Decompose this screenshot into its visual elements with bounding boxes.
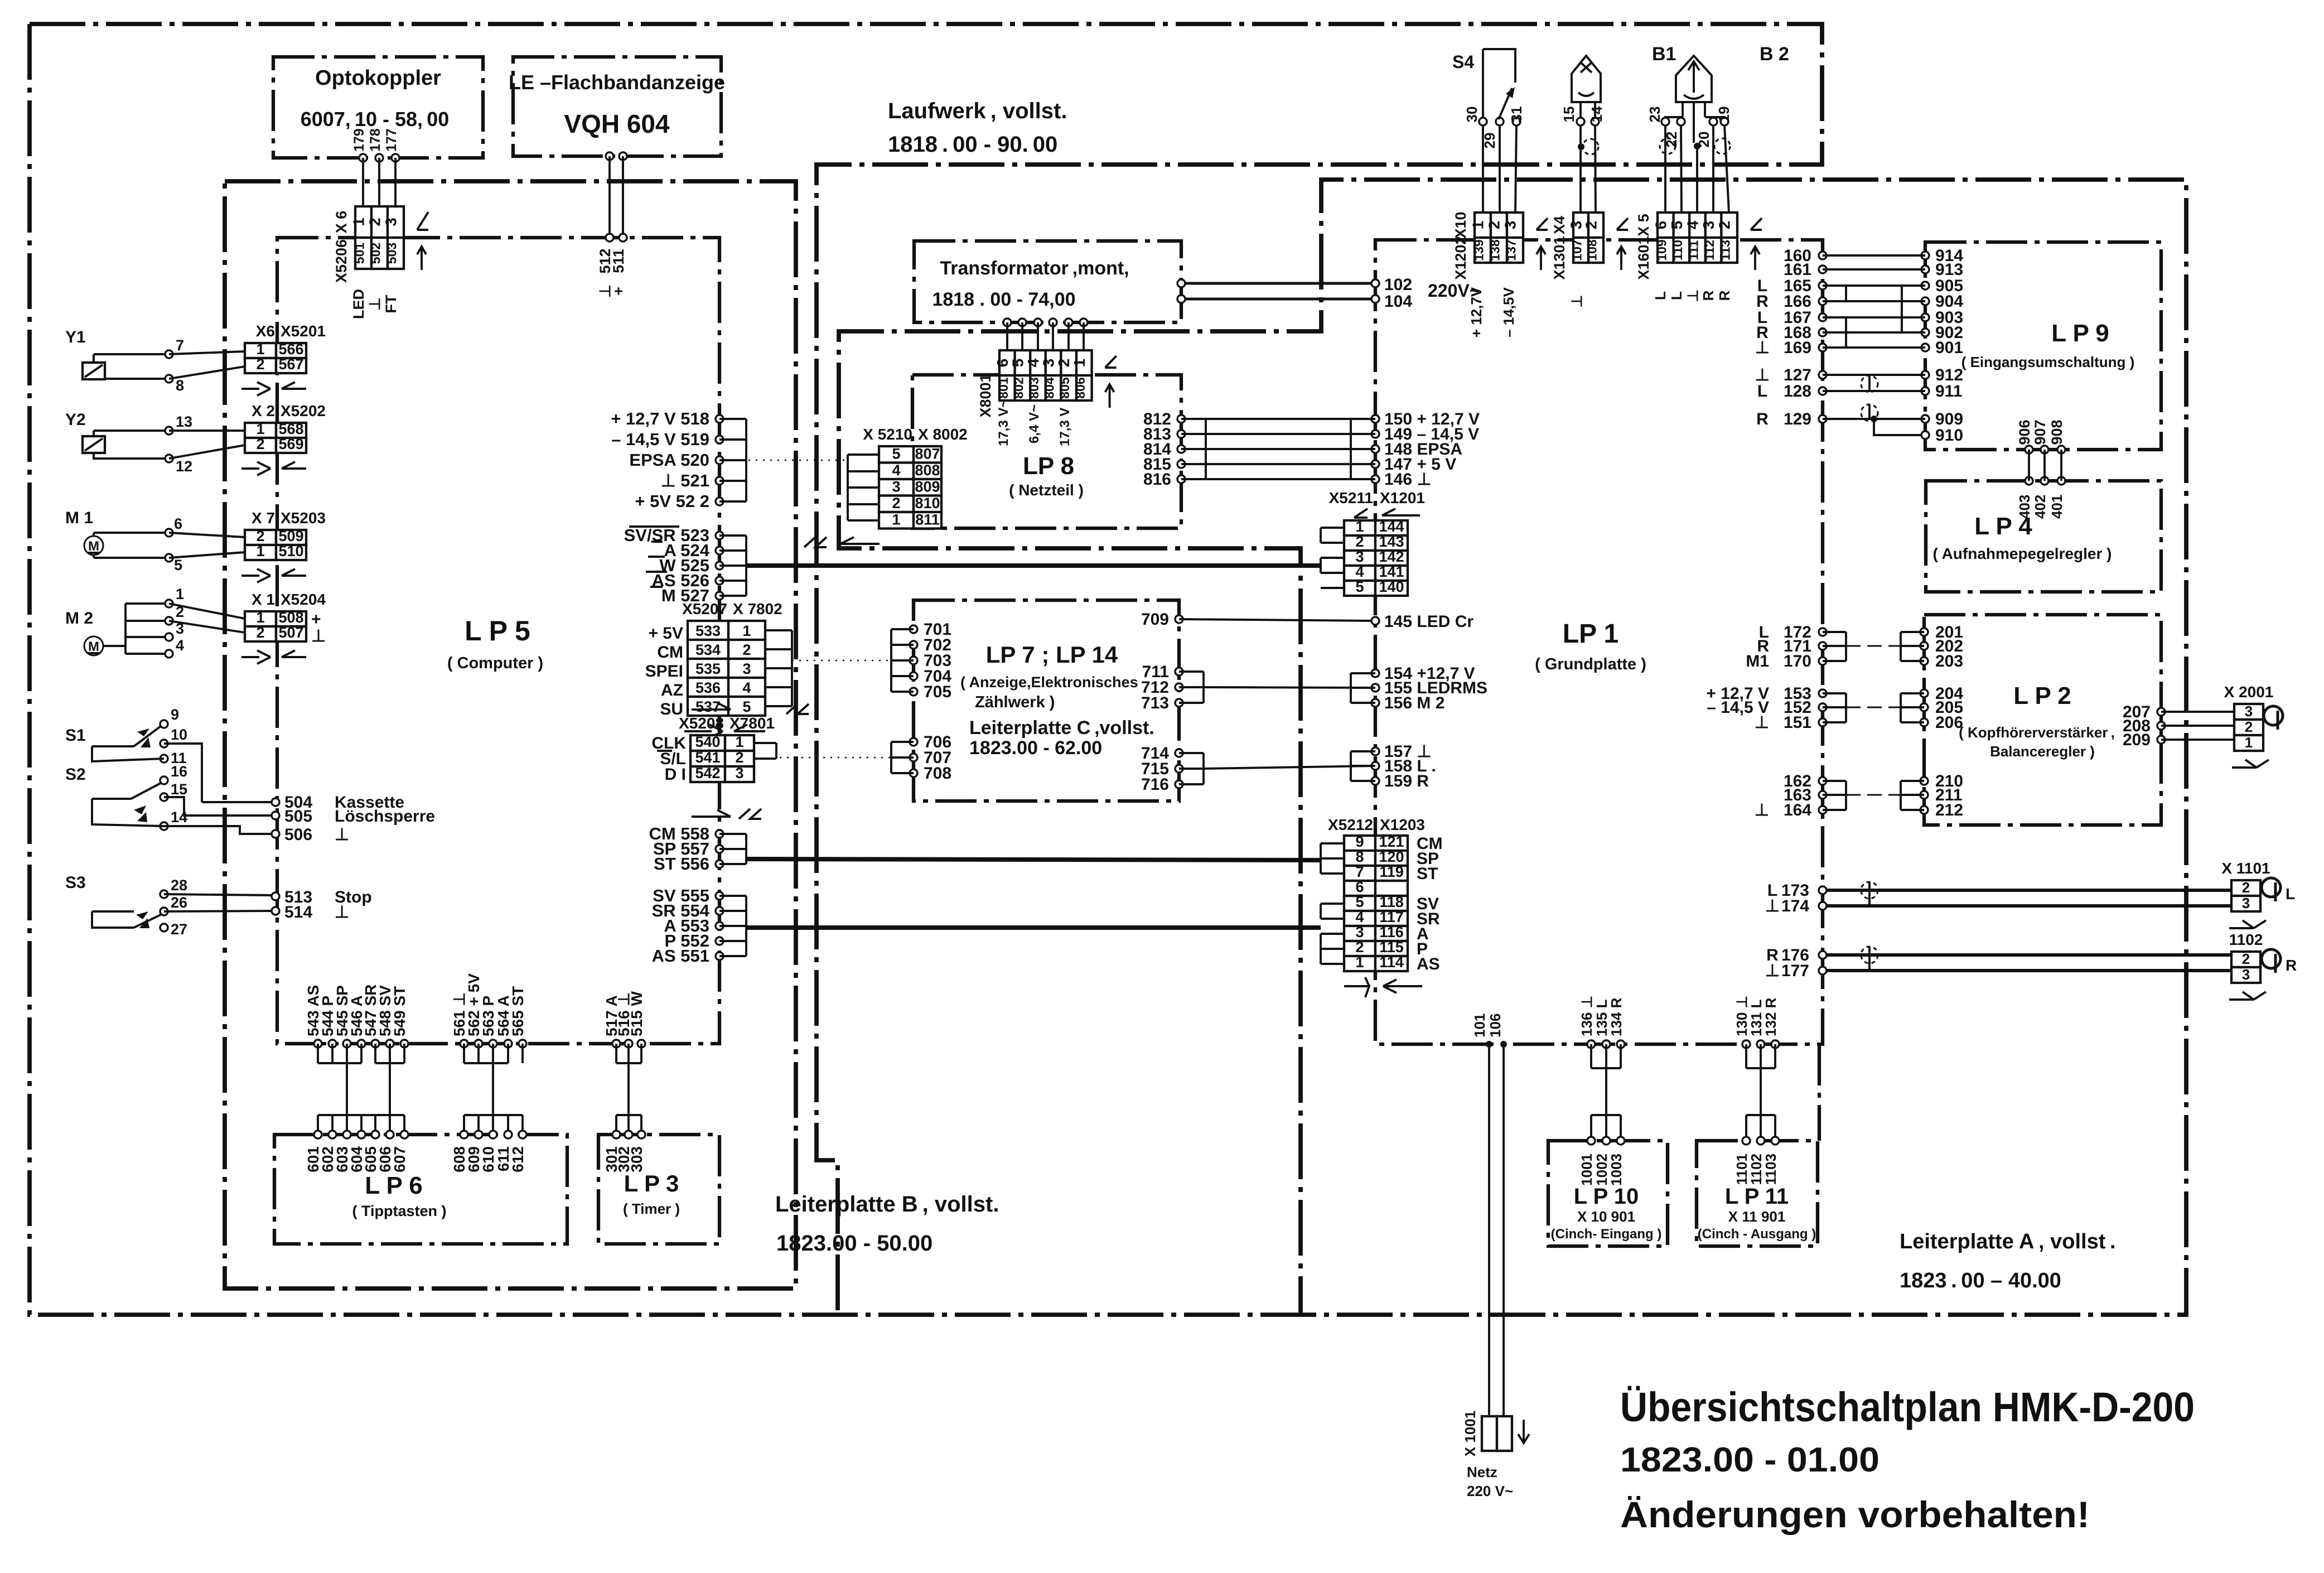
svg-text:1823.00 - 50.00: 1823.00 - 50.00: [776, 1231, 933, 1256]
svg-text:2: 2: [1355, 939, 1364, 956]
svg-text:567: 567: [278, 356, 303, 373]
svg-text:138: 138: [1488, 239, 1502, 261]
svg-text:X5204: X5204: [281, 591, 326, 608]
svg-text:134 R: 134 R: [1608, 997, 1625, 1036]
svg-text:177: 177: [1781, 962, 1809, 980]
svg-text:514: 514: [284, 903, 312, 921]
svg-text:L: L: [1757, 382, 1767, 401]
svg-text:2: 2: [256, 436, 264, 452]
svg-text:17,3 V: 17,3 V: [1057, 408, 1072, 446]
svg-text:M: M: [88, 539, 99, 554]
svg-text:5: 5: [892, 446, 900, 462]
svg-text:19: 19: [1716, 107, 1732, 123]
svg-text:906: 906: [2016, 419, 2033, 445]
svg-text:1: 1: [742, 623, 751, 639]
svg-text:16: 16: [171, 763, 187, 780]
svg-text:1: 1: [1071, 359, 1088, 368]
svg-text:705: 705: [924, 683, 951, 701]
svg-text:17,3 V~: 17,3 V~: [996, 400, 1011, 446]
svg-text:⊥: ⊥: [1568, 295, 1585, 308]
svg-text:111: 111: [1687, 240, 1701, 260]
svg-text:8: 8: [176, 377, 184, 394]
svg-text:( Netzteil ): ( Netzteil ): [1009, 481, 1084, 499]
svg-text:1003: 1003: [1608, 1154, 1625, 1186]
svg-text:203: 203: [1935, 652, 1963, 670]
svg-text:169: 169: [1784, 339, 1811, 357]
svg-text:Zählwerk ): Zählwerk ): [975, 693, 1055, 711]
svg-text:542: 542: [695, 765, 720, 781]
svg-text:10: 10: [171, 726, 187, 743]
svg-text:( Tipptasten ): ( Tipptasten ): [352, 1203, 446, 1219]
svg-text:811: 811: [915, 512, 940, 528]
svg-text:118: 118: [1379, 894, 1404, 910]
svg-text:L P 6: L P 6: [365, 1172, 423, 1199]
svg-text:31: 31: [1508, 107, 1525, 123]
svg-text:1: 1: [350, 218, 368, 226]
svg-text:4: 4: [1355, 909, 1364, 925]
svg-text:27: 27: [171, 921, 187, 938]
svg-text:6: 6: [1652, 221, 1669, 230]
svg-text:115: 115: [1379, 939, 1404, 956]
svg-text:⊥: ⊥: [1755, 801, 1769, 819]
svg-text:X 6: X 6: [333, 211, 350, 234]
svg-text:S2: S2: [65, 765, 86, 784]
svg-text:L: L: [2286, 885, 2295, 903]
svg-text:26: 26: [171, 894, 187, 911]
svg-text:L P 11: L P 11: [1725, 1184, 1789, 1209]
svg-text:3: 3: [2245, 703, 2253, 720]
svg-text:403: 403: [2016, 495, 2033, 519]
svg-text:807: 807: [915, 446, 940, 462]
svg-text:109: 109: [1654, 239, 1669, 260]
svg-text:143: 143: [1379, 533, 1404, 550]
svg-text:LP 8: LP 8: [1023, 452, 1074, 480]
svg-text:9: 9: [1355, 833, 1364, 850]
svg-text:5: 5: [742, 698, 751, 715]
svg-text:⊥: ⊥: [1765, 897, 1780, 915]
svg-text:+ 12,7V: + 12,7V: [1468, 287, 1485, 337]
svg-text:1: 1: [256, 543, 264, 559]
svg-text:5: 5: [174, 557, 182, 573]
svg-text:+ 5V: + 5V: [648, 624, 683, 643]
svg-text:535: 535: [695, 660, 721, 677]
svg-text:144: 144: [1379, 518, 1404, 535]
svg-text:129: 129: [1784, 410, 1811, 428]
svg-text:907: 907: [2032, 419, 2048, 445]
svg-text:1: 1: [892, 512, 900, 528]
svg-text:502: 502: [369, 243, 383, 264]
svg-text:515 W: 515 W: [628, 991, 645, 1036]
svg-text:⊥: ⊥: [366, 297, 383, 311]
svg-text:S1: S1: [65, 726, 86, 745]
svg-text:M: M: [88, 639, 99, 654]
svg-text:2: 2: [256, 624, 264, 641]
svg-text:2: 2: [2245, 718, 2253, 735]
svg-text:Netz: Netz: [1467, 1464, 1497, 1480]
svg-text:908: 908: [2048, 419, 2065, 445]
svg-text:1: 1: [2245, 734, 2253, 751]
svg-text:D I: D I: [665, 765, 686, 784]
svg-text:L: L: [1652, 291, 1669, 300]
svg-text:X6: X6: [256, 322, 275, 340]
svg-text:L P 9: L P 9: [2051, 320, 2109, 347]
svg-text:178: 178: [368, 128, 383, 152]
svg-text:⊥: ⊥: [1755, 339, 1770, 357]
svg-text:13: 13: [176, 413, 192, 430]
svg-text:L: L: [1668, 291, 1685, 300]
svg-text:137: 137: [1504, 239, 1519, 260]
svg-text:3: 3: [2242, 966, 2250, 983]
svg-text:136 ⊥: 136 ⊥: [1578, 996, 1595, 1036]
svg-text:2: 2: [1355, 533, 1364, 550]
svg-text:612: 612: [509, 1146, 526, 1172]
svg-text:X 8002: X 8002: [918, 426, 968, 443]
svg-text:X 11 901: X 11 901: [1728, 1208, 1786, 1225]
svg-text:508: 508: [278, 609, 303, 626]
svg-text:S4: S4: [1452, 52, 1474, 72]
svg-text:X7801: X7801: [729, 715, 775, 732]
svg-text:179: 179: [351, 128, 367, 152]
svg-text:116: 116: [1379, 924, 1404, 940]
svg-text:146 ⊥: 146 ⊥: [1384, 470, 1432, 489]
svg-text:X 7802: X 7802: [733, 600, 782, 617]
svg-text:541: 541: [695, 749, 720, 766]
svg-text:806: 806: [1073, 377, 1088, 398]
svg-text:X 2001: X 2001: [2224, 683, 2274, 701]
svg-text:5: 5: [1355, 578, 1364, 595]
svg-text:( Kopfhörerverstärker ,: ( Kopfhörerverstärker ,: [1959, 724, 2115, 741]
svg-text:1103: 1103: [1762, 1154, 1779, 1185]
svg-text:28: 28: [171, 877, 187, 894]
svg-text:B1: B1: [1652, 44, 1676, 65]
svg-text:8: 8: [1355, 848, 1364, 865]
svg-text:Leiterplatte A , vollst .: Leiterplatte A , vollst .: [1900, 1230, 2116, 1253]
svg-text:107: 107: [1570, 239, 1584, 260]
svg-text:X1301: X1301: [1551, 236, 1568, 279]
svg-text:15: 15: [171, 781, 187, 798]
svg-text:EPSA 520: EPSA 520: [629, 450, 709, 470]
svg-text:X5202: X5202: [281, 402, 326, 419]
svg-text:507: 507: [278, 624, 303, 641]
svg-text:2: 2: [742, 641, 751, 658]
svg-text:3: 3: [1700, 221, 1717, 230]
svg-text:⊥: ⊥: [1684, 289, 1701, 302]
svg-text:( Timer ): ( Timer ): [623, 1200, 680, 1217]
svg-text:M 1: M 1: [65, 509, 93, 527]
svg-text:1818 . 00 - 74,00: 1818 . 00 - 74,00: [932, 289, 1075, 310]
svg-text:1: 1: [176, 586, 184, 602]
svg-text:140: 140: [1379, 578, 1404, 595]
svg-text:⊥: ⊥: [1755, 713, 1769, 732]
svg-text:2: 2: [892, 495, 900, 512]
svg-text:503: 503: [385, 243, 399, 264]
svg-text:X1202: X1202: [1452, 236, 1469, 279]
svg-text:139: 139: [1472, 239, 1486, 260]
svg-text:( Eingangsumschaltung ): ( Eingangsumschaltung ): [1961, 354, 2135, 370]
svg-text:5: 5: [1355, 894, 1364, 910]
svg-text:801: 801: [996, 377, 1011, 399]
svg-text:3: 3: [892, 479, 900, 495]
svg-text:VQH 604: VQH 604: [564, 109, 670, 138]
svg-text:2: 2: [735, 749, 743, 766]
svg-text:X 1001: X 1001: [1462, 1411, 1479, 1456]
svg-text:X5203: X5203: [281, 509, 326, 527]
svg-text:1001: 1001: [1578, 1154, 1595, 1186]
svg-text:164: 164: [1784, 801, 1811, 819]
svg-text:506: 506: [284, 826, 312, 844]
svg-text:X1601: X1601: [1635, 236, 1652, 279]
svg-text:1818 . 00 - 90. 00: 1818 . 00 - 90. 00: [888, 132, 1057, 157]
svg-text:X5211: X5211: [1329, 489, 1373, 506]
svg-text:145 LED Cr: 145 LED Cr: [1384, 612, 1473, 631]
svg-text:4: 4: [742, 679, 751, 696]
svg-text:910: 910: [1935, 426, 1963, 445]
svg-text:Übersichtschaltplan HMK-D-200: Übersichtschaltplan HMK-D-200: [1620, 1384, 2195, 1430]
svg-text:128: 128: [1784, 382, 1811, 401]
svg-text:174: 174: [1781, 897, 1809, 915]
svg-text:1: 1: [735, 734, 743, 750]
svg-text:220 V~: 220 V~: [1467, 1483, 1513, 1499]
svg-text:5: 5: [1668, 221, 1685, 230]
svg-text:3: 3: [1502, 221, 1519, 230]
svg-text:30: 30: [1463, 107, 1480, 123]
svg-text:803: 803: [1027, 377, 1041, 398]
svg-text:M1: M1: [1746, 652, 1769, 670]
svg-text:⊥: ⊥: [335, 826, 349, 844]
svg-text:816: 816: [1143, 470, 1171, 489]
svg-text:510: 510: [278, 543, 303, 559]
svg-text:S3: S3: [65, 874, 86, 892]
svg-text:( Anzeige,Elektronisches: ( Anzeige,Elektronisches: [960, 674, 1138, 691]
svg-text:2: 2: [2242, 879, 2250, 896]
svg-text:AS 551: AS 551: [652, 946, 709, 966]
svg-text:3: 3: [383, 218, 400, 226]
svg-text:802: 802: [1011, 377, 1026, 398]
svg-text:114: 114: [1379, 954, 1404, 971]
svg-text:2: 2: [256, 528, 264, 544]
svg-text:Balanceregler ): Balanceregler ): [1990, 743, 2095, 760]
svg-text:120: 120: [1379, 848, 1404, 865]
svg-text:534: 534: [695, 641, 721, 658]
svg-text:1823.00 - 01.00: 1823.00 - 01.00: [1620, 1441, 1880, 1479]
svg-text:151: 151: [1784, 713, 1811, 732]
svg-text:ST 556: ST 556: [654, 854, 709, 874]
svg-text:809: 809: [915, 479, 940, 495]
svg-text:X 5210: X 5210: [863, 426, 912, 443]
svg-text:108: 108: [1585, 239, 1600, 261]
svg-text:15: 15: [1560, 107, 1577, 123]
svg-text:3: 3: [735, 765, 743, 781]
svg-text:6007, 10 - 58, 00: 6007, 10 - 58, 00: [301, 108, 450, 131]
svg-text:1: 1: [1355, 954, 1364, 971]
svg-text:Löschsperre: Löschsperre: [335, 807, 435, 826]
svg-text:LP 1: LP 1: [1563, 619, 1619, 649]
svg-text:121: 121: [1379, 833, 1404, 850]
svg-text:LP 7 ; LP 14: LP 7 ; LP 14: [986, 641, 1118, 668]
svg-text:R: R: [1716, 290, 1733, 301]
svg-text:Optokoppler: Optokoppler: [315, 66, 441, 90]
svg-text:– 14,5V: – 14,5V: [1500, 287, 1517, 337]
svg-text:+: +: [610, 287, 627, 296]
svg-text:⊥: ⊥: [335, 903, 349, 921]
svg-text:20: 20: [1695, 132, 1712, 148]
svg-text:505: 505: [284, 807, 312, 826]
svg-text:142: 142: [1379, 548, 1404, 565]
svg-text:X8001: X8001: [977, 374, 994, 417]
svg-text:Y1: Y1: [65, 328, 86, 346]
svg-text:6,4 V~: 6,4 V~: [1027, 404, 1042, 443]
svg-text:1: 1: [1470, 221, 1487, 230]
svg-text:2: 2: [2242, 950, 2250, 967]
svg-text:303: 303: [628, 1146, 645, 1172]
svg-text:549 ST: 549 ST: [391, 986, 408, 1036]
svg-text:+: +: [311, 610, 321, 629]
svg-text:2: 2: [1486, 221, 1503, 230]
svg-text:569: 569: [278, 436, 303, 452]
svg-text:511: 511: [610, 249, 627, 273]
svg-text:209: 209: [2123, 731, 2151, 749]
svg-text:536: 536: [695, 679, 721, 696]
svg-text:4: 4: [892, 462, 900, 479]
svg-text:X 5: X 5: [1635, 214, 1652, 237]
svg-text:709: 709: [1141, 610, 1169, 629]
svg-text:FT: FT: [383, 295, 399, 313]
svg-text:141: 141: [1379, 563, 1404, 580]
svg-text:6: 6: [174, 515, 182, 532]
svg-text:713: 713: [1141, 694, 1169, 712]
svg-text:CM: CM: [657, 643, 683, 662]
svg-text:1: 1: [256, 609, 264, 626]
svg-text:( Computer ): ( Computer ): [447, 654, 543, 672]
svg-text:810: 810: [915, 495, 940, 512]
svg-text:+ 12,7 V 518: + 12,7 V 518: [611, 409, 709, 428]
svg-text:X 10 901: X 10 901: [1577, 1208, 1635, 1225]
svg-text:112: 112: [1702, 240, 1717, 260]
svg-text:401: 401: [2048, 495, 2065, 519]
svg-text:2: 2: [1055, 359, 1072, 368]
svg-text:4: 4: [1684, 220, 1702, 229]
svg-text:Laufwerk , vollst.: Laufwerk , vollst.: [888, 99, 1067, 123]
svg-text:( Aufnahmepegelregler ): ( Aufnahmepegelregler ): [1932, 545, 2112, 562]
svg-text:X5212: X5212: [1328, 816, 1373, 833]
svg-text:AS: AS: [1417, 955, 1440, 973]
svg-text:X 7: X 7: [252, 509, 275, 527]
svg-text:402: 402: [2032, 495, 2048, 519]
svg-text:113: 113: [1718, 240, 1733, 260]
svg-text:102: 102: [1384, 276, 1412, 294]
svg-text:X 1101: X 1101: [2221, 860, 2270, 877]
svg-text:2: 2: [1583, 221, 1600, 230]
svg-text:ST: ST: [1417, 865, 1438, 883]
svg-text:⊥: ⊥: [1765, 962, 1780, 980]
svg-text:117: 117: [1379, 909, 1404, 925]
svg-text:L P 3: L P 3: [624, 1170, 679, 1196]
svg-text:1823.00 - 62.00: 1823.00 - 62.00: [969, 737, 1102, 759]
svg-text:9: 9: [171, 706, 179, 723]
svg-text:540: 540: [695, 734, 720, 750]
svg-text:212: 212: [1935, 801, 1963, 819]
svg-text:( Grundplatte ): ( Grundplatte ): [1535, 655, 1646, 673]
svg-text:5: 5: [1009, 359, 1026, 368]
svg-text:177: 177: [384, 128, 399, 152]
svg-text:X 2: X 2: [252, 402, 275, 419]
svg-text:804: 804: [1042, 377, 1057, 399]
svg-text:6: 6: [1355, 879, 1364, 895]
svg-text:X4: X4: [1551, 216, 1568, 234]
svg-text:X1203: X1203: [1380, 816, 1425, 833]
svg-text:1: 1: [1355, 518, 1364, 535]
svg-text:509: 509: [278, 528, 303, 544]
svg-text:607: 607: [391, 1146, 408, 1172]
svg-text:101: 101: [1471, 1014, 1488, 1038]
svg-text:X5201: X5201: [281, 322, 326, 340]
svg-text:537: 537: [695, 698, 721, 715]
svg-text:B 2: B 2: [1760, 44, 1789, 65]
svg-text:3: 3: [1040, 359, 1057, 368]
svg-text:4: 4: [1025, 358, 1042, 367]
svg-text:14: 14: [1588, 106, 1605, 122]
svg-text:6: 6: [994, 359, 1011, 368]
svg-text:3: 3: [742, 660, 751, 677]
svg-text:X10: X10: [1452, 211, 1469, 238]
svg-text:X 1: X 1: [252, 591, 275, 608]
svg-text:119: 119: [1379, 863, 1404, 880]
svg-text:SPEI: SPEI: [645, 662, 683, 681]
svg-text:⊥: ⊥: [311, 627, 326, 645]
svg-text:911: 911: [1935, 382, 1962, 401]
svg-text:4: 4: [1355, 563, 1364, 580]
svg-text:501: 501: [352, 243, 367, 264]
svg-text:1: 1: [256, 341, 264, 358]
svg-text:565 ST: 565 ST: [509, 986, 526, 1036]
svg-text:R: R: [1700, 290, 1717, 301]
svg-text:L P 2: L P 2: [2013, 682, 2071, 710]
svg-text:805: 805: [1057, 377, 1072, 399]
svg-text:Y2: Y2: [65, 411, 86, 429]
svg-text:156 M 2: 156 M 2: [1384, 694, 1444, 712]
svg-text:AZ: AZ: [661, 681, 683, 699]
svg-text:206: 206: [1935, 713, 1963, 732]
svg-text:M 2: M 2: [65, 609, 93, 628]
svg-text:(Cinch- Eingang ): (Cinch- Eingang ): [1551, 1227, 1662, 1242]
svg-text:7: 7: [176, 337, 184, 354]
svg-text:566: 566: [278, 341, 303, 358]
svg-text:1102: 1102: [2229, 931, 2263, 948]
svg-text:X5207: X5207: [682, 600, 727, 617]
svg-text:159 R: 159 R: [1384, 772, 1429, 790]
svg-text:2: 2: [1716, 221, 1733, 230]
svg-text:1: 1: [256, 421, 264, 437]
svg-text:Leiterplatte C ,vollst.: Leiterplatte C ,vollst.: [969, 717, 1154, 739]
svg-text:1823 . 00 – 40.00: 1823 . 00 – 40.00: [1900, 1269, 2061, 1292]
svg-text:– 14,5 V 519: – 14,5 V 519: [611, 430, 709, 449]
svg-text:R: R: [2286, 957, 2297, 974]
svg-text:12: 12: [176, 458, 192, 475]
svg-text:708: 708: [924, 764, 951, 783]
svg-text:568: 568: [278, 421, 303, 437]
svg-text:2: 2: [256, 356, 264, 373]
svg-text:110: 110: [1670, 240, 1685, 260]
svg-text:L P 10: L P 10: [1574, 1184, 1639, 1209]
svg-text:LED: LED: [350, 289, 367, 319]
svg-text:⊥ 521: ⊥ 521: [661, 471, 709, 490]
svg-text:X1201: X1201: [1380, 489, 1425, 506]
svg-text:170: 170: [1784, 652, 1811, 670]
svg-text:+ 5V 52 2: + 5V 52 2: [635, 491, 709, 511]
svg-text:3: 3: [1355, 924, 1364, 940]
svg-text:R: R: [1756, 410, 1769, 428]
svg-text:7: 7: [1355, 863, 1364, 880]
